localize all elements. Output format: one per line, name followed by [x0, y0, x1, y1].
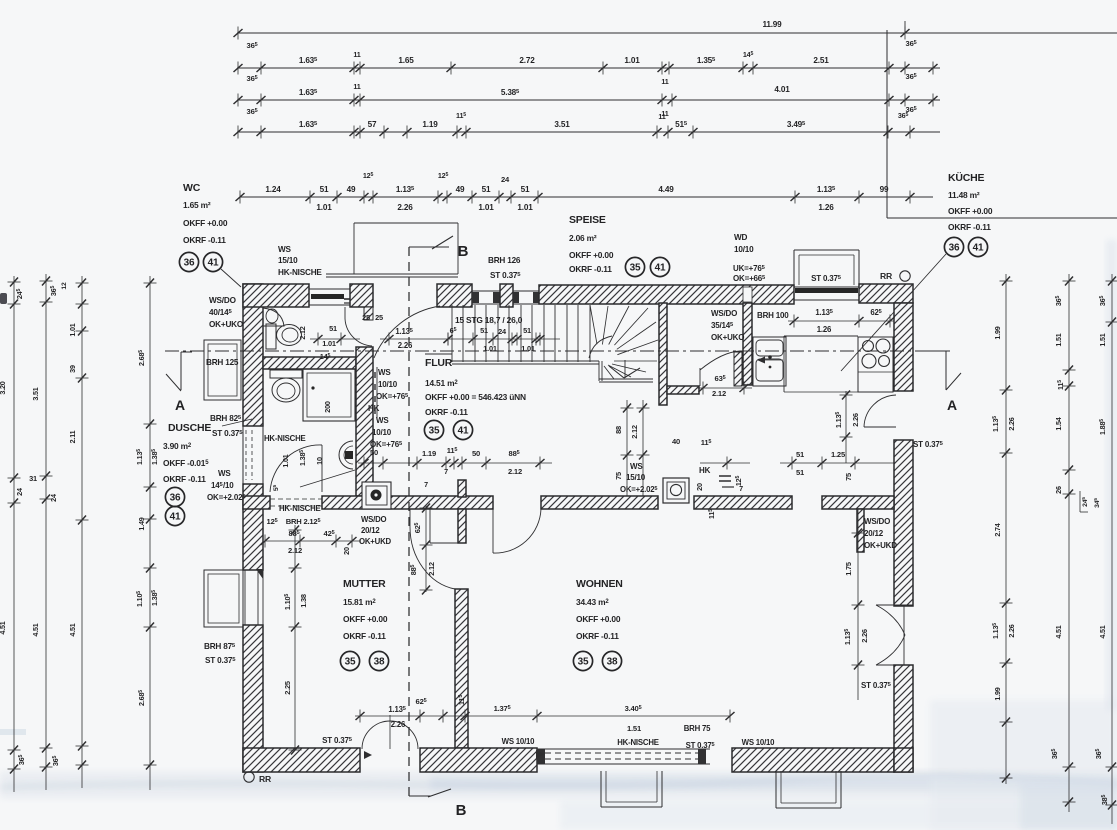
bottom dim line — [355, 715, 730, 717]
svg-text:41: 41 — [655, 263, 666, 274]
svg-text:24: 24 — [501, 175, 510, 184]
svg-text:4.51: 4.51 — [1054, 625, 1063, 638]
svg-text:75: 75 — [844, 473, 853, 481]
heater niche FLUR box — [663, 478, 689, 503]
WOHNEN circled 38 — [602, 651, 621, 670]
niche WC dashes — [344, 298, 352, 300]
svg-text:10/10: 10/10 — [378, 380, 398, 389]
wall right mid — [894, 440, 913, 606]
right small bracket — [1079, 491, 1081, 512]
svg-text:41: 41 — [973, 243, 984, 254]
svg-text:BRH 125: BRH 125 — [206, 358, 239, 367]
svg-text:24: 24 — [498, 327, 507, 336]
wall left niche HK — [242, 426, 244, 484]
svg-text:4.51: 4.51 — [68, 623, 77, 636]
wall closet stub right — [857, 509, 864, 552]
svg-text:4.49: 4.49 — [658, 185, 674, 194]
svg-text:OKRF -0.11: OKRF -0.11 — [425, 407, 468, 417]
svg-text:50: 50 — [370, 448, 378, 457]
svg-text:99: 99 — [880, 185, 889, 194]
svg-text:BRH 75: BRH 75 — [684, 724, 711, 733]
door MUTTER arc — [409, 509, 411, 527]
door KUECHE arc — [699, 368, 701, 386]
svg-text:ST 0.375: ST 0.375 — [861, 681, 892, 690]
svg-text:57: 57 — [368, 120, 377, 129]
bath basin — [339, 441, 353, 469]
closet MUTTER line — [430, 542, 458, 544]
svg-text:WS/DO: WS/DO — [209, 296, 237, 305]
svg-text:1.01: 1.01 — [281, 454, 290, 467]
svg-text:36: 36 — [170, 493, 181, 504]
wall bath south / MUTTER north west — [243, 496, 270, 509]
svg-text:51: 51 — [523, 326, 531, 335]
svg-text:WOHNEN: WOHNEN — [576, 578, 623, 590]
svg-text:A: A — [947, 397, 957, 413]
svg-text:RR: RR — [259, 774, 272, 784]
niche WD slot — [743, 287, 752, 302]
dim chain row3 line — [237, 99, 940, 101]
svg-text:41: 41 — [170, 512, 181, 523]
stair treads — [451, 305, 453, 362]
scan shading bottom strip — [0, 772, 1117, 798]
svg-text:11: 11 — [353, 82, 360, 91]
svg-text:15 STG 18,7 / 26,0: 15 STG 18,7 / 26,0 — [455, 315, 523, 325]
svg-text:15/10: 15/10 — [278, 256, 298, 265]
scan shading lower right wash — [930, 700, 1117, 830]
scan shading bottom area — [560, 800, 1117, 830]
svg-text:51: 51 — [480, 326, 488, 335]
site boundary corner top right — [886, 30, 888, 218]
door FLUR-WOHNEN opening — [492, 509, 494, 553]
svg-text:7: 7 — [424, 480, 428, 489]
wall MUTTER partition lower — [455, 589, 468, 748]
svg-text:49: 49 — [347, 185, 356, 194]
corridor vert dim — [626, 400, 628, 496]
wall corridor south mid — [541, 496, 658, 509]
wall MUTTER closet pier — [458, 480, 466, 497]
svg-text:41: 41 — [208, 258, 219, 269]
svg-text:OK=+2.025: OK=+2.025 — [620, 485, 657, 494]
svg-text:2.12: 2.12 — [630, 425, 639, 439]
MUTTER circled 38 — [369, 651, 388, 670]
wall pier FLUR windows — [500, 284, 513, 307]
niche FLUR west front — [372, 367, 374, 420]
door FLUR entrance arc — [374, 306, 440, 358]
svg-text:35: 35 — [345, 657, 356, 668]
left chain 3 — [81, 276, 83, 788]
mutter vert dim — [294, 525, 296, 750]
svg-text:ST 0.375: ST 0.375 — [811, 274, 842, 283]
wall MUTTER partition upper — [458, 509, 466, 543]
svg-text:36: 36 — [184, 258, 195, 269]
svg-text:MUTTER: MUTTER — [343, 578, 386, 590]
mutter top dim — [265, 540, 361, 542]
svg-text:10/10: 10/10 — [372, 428, 392, 437]
svg-text:49: 49 — [456, 185, 465, 194]
svg-text:1.51: 1.51 — [627, 724, 642, 733]
svg-text:11: 11 — [353, 50, 360, 59]
wall stair east — [659, 303, 667, 405]
svg-text:3.51: 3.51 — [31, 387, 40, 400]
svg-text:HK-NISCHE: HK-NISCHE — [279, 504, 321, 513]
svg-text:51: 51 — [482, 185, 491, 194]
kueche door vert dim — [845, 391, 847, 463]
wall north SPEISE-WD — [539, 285, 794, 304]
svg-text:4.51: 4.51 — [0, 621, 7, 634]
svg-text:2.12: 2.12 — [712, 389, 726, 398]
duct box flur west — [362, 482, 391, 509]
svg-text:1.99: 1.99 — [993, 326, 1002, 339]
svg-text:26: 26 — [1054, 486, 1063, 494]
svg-text:24: 24 — [15, 488, 24, 496]
wall right lower — [894, 665, 913, 772]
kueche sink — [753, 337, 786, 386]
svg-text:2.26: 2.26 — [398, 341, 413, 350]
svg-text:OKFF -0.015: OKFF -0.015 — [163, 458, 209, 468]
dim chain row2 line — [237, 67, 940, 69]
svg-text:31: 31 — [29, 474, 37, 483]
window sill box south 1 — [600, 771, 602, 807]
wall left below niche — [243, 484, 263, 570]
mutter door vert dim — [425, 505, 427, 592]
svg-text:1.75: 1.75 — [844, 562, 853, 576]
svg-text:OKFF +0.00: OKFF +0.00 — [576, 614, 621, 624]
SPEISE circled 35 — [625, 257, 644, 276]
svg-text:OK+UKD: OK+UKD — [864, 541, 897, 550]
left chain 1 — [13, 276, 15, 792]
wall FLUR north block — [437, 284, 472, 307]
svg-text:2.12: 2.12 — [298, 326, 307, 339]
svg-text:WD: WD — [734, 233, 748, 242]
svg-text:HK: HK — [699, 466, 711, 475]
svg-text:BRH 126: BRH 126 — [488, 256, 521, 265]
svg-text:88: 88 — [614, 426, 623, 434]
scan shading right edge — [1106, 240, 1117, 710]
svg-text:4.51: 4.51 — [1098, 625, 1107, 638]
window KUECHE opening — [794, 286, 859, 288]
svg-text:OKRF -0.11: OKRF -0.11 — [183, 235, 226, 245]
svg-text:1.38: 1.38 — [299, 594, 308, 608]
dim chain 11.99 line — [237, 32, 1117, 34]
svg-text:34.43 m2: 34.43 m2 — [576, 597, 609, 607]
right chain 2 — [1068, 274, 1070, 812]
stair dim line — [444, 338, 560, 340]
door bath opening dashes — [270, 498, 322, 500]
FLUR circled 41 — [453, 420, 472, 439]
door bath arc — [270, 445, 322, 492]
svg-text:/10: /10 — [223, 481, 234, 490]
wall bath east / FLUR west — [356, 347, 373, 496]
wall bottom MUTTER — [243, 748, 360, 772]
wall KUECHE door jamb — [734, 352, 742, 386]
svg-text:ST 0.375: ST 0.375 — [913, 440, 944, 449]
stair walk line arc — [589, 336, 612, 358]
svg-text:2.06 m²: 2.06 m² — [569, 233, 597, 243]
svg-text:OK+UKO: OK+UKO — [711, 333, 744, 342]
KUECHE leader line — [841, 254, 946, 371]
svg-text:BRH 2.125: BRH 2.125 — [286, 517, 321, 526]
svg-text:OKFF +0.00: OKFF +0.00 — [343, 614, 388, 624]
svg-text:2.74: 2.74 — [993, 523, 1002, 536]
svg-text:50: 50 — [472, 449, 480, 458]
wall north-east corner — [859, 284, 913, 303]
wall pier WC step — [364, 307, 373, 320]
svg-text:20/12: 20/12 — [864, 529, 884, 538]
svg-text:7: 7 — [739, 484, 743, 493]
svg-text:2.12: 2.12 — [427, 562, 436, 576]
dim chain row4 line — [237, 131, 940, 133]
svg-text:HK: HK — [368, 404, 380, 413]
svg-text:A: A — [175, 397, 185, 413]
section line A-A — [165, 350, 950, 352]
svg-text:11: 11 — [661, 77, 668, 86]
scan corner wash bottom right — [1020, 780, 1117, 830]
svg-text:OKRF -0.11: OKRF -0.11 — [569, 264, 612, 274]
bath toilet — [270, 370, 302, 378]
svg-text:35: 35 — [429, 426, 440, 437]
svg-text:75: 75 — [614, 472, 623, 480]
stair walk line arrow — [624, 360, 626, 378]
window BRH125 outer box — [204, 340, 241, 400]
svg-text:B: B — [458, 243, 469, 260]
vent triangle MUTTER window — [256, 569, 263, 579]
svg-text:4.01: 4.01 — [774, 85, 790, 94]
DUSCHE circled 41 — [165, 506, 184, 525]
svg-text:1.24: 1.24 — [265, 185, 281, 194]
svg-text:35: 35 — [578, 657, 589, 668]
niche WC north — [309, 288, 350, 290]
svg-text:1.25: 1.25 — [831, 450, 846, 459]
svg-text:1.26: 1.26 — [818, 203, 834, 212]
svg-text:1.01: 1.01 — [483, 344, 497, 353]
svg-text:2.72: 2.72 — [519, 56, 535, 65]
window HK-NISCHE south — [537, 748, 710, 750]
svg-text:10: 10 — [315, 457, 324, 465]
svg-text:40: 40 — [672, 437, 680, 446]
svg-text:39: 39 — [68, 365, 77, 373]
svg-text:1.54: 1.54 — [1054, 417, 1063, 430]
wall right KUECHE — [894, 303, 913, 391]
svg-text:51: 51 — [521, 185, 530, 194]
svg-text:1.01: 1.01 — [316, 203, 332, 212]
svg-text:20: 20 — [342, 547, 351, 555]
svg-text:1.01: 1.01 — [624, 56, 640, 65]
svg-text:20/12: 20/12 — [361, 526, 380, 535]
WC toilet — [266, 324, 276, 349]
bath shower — [303, 369, 355, 421]
svg-text:OKRF -0.11: OKRF -0.11 — [948, 222, 991, 232]
svg-text:1.51: 1.51 — [1054, 333, 1063, 346]
wall SPEISE south — [667, 386, 699, 394]
section mark B bottom — [409, 795, 431, 797]
svg-text:11.99: 11.99 — [762, 20, 782, 29]
svg-text:OKRF -0.11: OKRF -0.11 — [343, 631, 386, 641]
wall corridor south end — [822, 496, 894, 509]
svg-text:38: 38 — [607, 657, 618, 668]
label RR bottom — [244, 772, 254, 782]
right chain 3 — [1111, 274, 1113, 824]
svg-text:OKFF +0.00: OKFF +0.00 — [569, 250, 614, 260]
svg-text:2.51: 2.51 — [813, 56, 829, 65]
window MUTTER outer box — [204, 570, 243, 627]
stair stringer — [452, 360, 599, 362]
stair winder stringer — [598, 361, 600, 381]
svg-text:UK=+765: UK=+765 — [733, 264, 766, 273]
svg-text:11.48 m²: 11.48 m² — [948, 190, 980, 200]
kueche arrow left — [758, 359, 783, 361]
svg-text:24: 24 — [49, 494, 58, 502]
svg-text:WS: WS — [376, 416, 389, 425]
svg-text:2.26: 2.26 — [860, 629, 869, 643]
svg-text:OKFF +0.00 = 546.423 üNN: OKFF +0.00 = 546.423 üNN — [425, 392, 526, 402]
svg-text:1.19: 1.19 — [422, 120, 438, 129]
door MUTTER south double — [362, 721, 390, 749]
svg-text:35: 35 — [630, 263, 641, 274]
svg-text:1.01: 1.01 — [478, 203, 494, 212]
svg-text:3.90 m2: 3.90 m2 — [163, 441, 192, 451]
WC circled 36 — [179, 252, 198, 271]
WC leader line — [221, 269, 241, 287]
svg-text:HK-NISCHE: HK-NISCHE — [278, 268, 322, 277]
svg-text:WS: WS — [218, 469, 231, 478]
svg-text:1.26: 1.26 — [817, 325, 832, 334]
wc dim ticks — [310, 338, 360, 340]
svg-text:B: B — [456, 802, 467, 819]
svg-text:ST 0.375: ST 0.375 — [322, 736, 353, 745]
door sill triangle WOHNEN — [536, 750, 544, 759]
section mark A right — [920, 350, 946, 352]
svg-text:WS 10/10: WS 10/10 — [742, 738, 776, 747]
svg-text:BRH 875: BRH 875 — [204, 642, 236, 651]
svg-text:38: 38 — [374, 657, 385, 668]
window KUECHE upstand box — [794, 249, 859, 251]
SPEISE circled 41 — [650, 257, 669, 276]
svg-text:51: 51 — [329, 324, 337, 333]
wall bottom WOHNEN — [732, 748, 894, 772]
svg-text:36: 36 — [949, 243, 960, 254]
svg-text:KÜCHE: KÜCHE — [948, 171, 985, 184]
svg-text:2.25: 2.25 — [283, 681, 292, 695]
svg-text:1.01: 1.01 — [68, 323, 77, 336]
svg-text:200: 200 — [323, 401, 332, 413]
MUTTER circled 35 — [340, 651, 359, 670]
svg-text:FLUR: FLUR — [425, 357, 453, 369]
svg-text:11: 11 — [658, 112, 665, 121]
svg-text:51: 51 — [796, 468, 805, 477]
svg-text:51: 51 — [320, 185, 329, 194]
svg-text:1.65: 1.65 — [398, 56, 414, 65]
svg-text:ST 0.375: ST 0.375 — [212, 429, 243, 438]
svg-text:OK+UKD: OK+UKD — [359, 537, 392, 546]
window FLUR north 1 — [472, 290, 500, 292]
wohnen right vert dim — [857, 509, 859, 700]
svg-text:ST 0.375: ST 0.375 — [686, 741, 715, 750]
DUSCHE circled 36 — [165, 487, 184, 506]
svg-text:WS/DO: WS/DO — [711, 309, 737, 318]
door WC arc — [345, 316, 372, 346]
svg-text:RR: RR — [880, 271, 893, 281]
svg-text:1.99: 1.99 — [993, 687, 1002, 700]
svg-text:WS: WS — [378, 368, 391, 377]
svg-text:OK=+2.025: OK=+2.025 — [207, 493, 246, 502]
left chain 4 — [149, 276, 151, 790]
svg-text:1.51: 1.51 — [1098, 333, 1107, 346]
WC corner sink — [263, 308, 284, 326]
section mark A left — [181, 351, 192, 353]
svg-text:25: 25 — [362, 313, 370, 322]
svg-text:HK-NISCHE: HK-NISCHE — [264, 434, 306, 443]
svg-text:OKRF -0.11: OKRF -0.11 — [576, 631, 619, 641]
kueche counter — [784, 335, 858, 337]
WOHNEN circled 35 — [573, 651, 592, 670]
KUECHE circled 36 — [944, 237, 963, 256]
svg-text:1.01: 1.01 — [322, 339, 336, 348]
svg-text:25: 25 — [375, 313, 383, 322]
wall corridor south right — [694, 496, 792, 509]
section line B-B — [408, 247, 410, 796]
right chain 1 — [1005, 274, 1007, 784]
svg-text:WS 10/10: WS 10/10 — [502, 737, 536, 746]
KUECHE circled 41 — [968, 237, 987, 256]
svg-text:4.51: 4.51 — [31, 623, 40, 636]
svg-text:15.81 m2: 15.81 m2 — [343, 597, 376, 607]
svg-text:ST 0.375: ST 0.375 — [205, 656, 236, 665]
svg-text:1.01: 1.01 — [521, 344, 535, 353]
scan smudge left edge — [0, 293, 7, 304]
svg-text:ST 0.375: ST 0.375 — [490, 271, 521, 280]
svg-text:WS/DO: WS/DO — [864, 517, 890, 526]
svg-text:WS: WS — [630, 462, 643, 471]
scan shading bottom strip 2 — [430, 776, 1117, 790]
wall pier WC north right — [350, 284, 373, 307]
wall bottom right corner — [894, 748, 913, 772]
svg-text:10/10: 10/10 — [734, 245, 754, 254]
svg-text:51: 51 — [796, 450, 805, 459]
wall left MUTTER lower — [243, 625, 263, 772]
WC circled 41 — [203, 252, 222, 271]
svg-text:14.51 m2: 14.51 m2 — [425, 378, 458, 388]
svg-text:7: 7 — [444, 467, 448, 476]
corridor right dim — [780, 462, 894, 464]
porch outline — [354, 222, 458, 224]
svg-text:BRH 100: BRH 100 — [757, 311, 789, 320]
svg-text:2.26: 2.26 — [1007, 624, 1016, 637]
svg-text:1.65 m²: 1.65 m² — [183, 200, 211, 210]
stair winder fan — [590, 305, 597, 344]
stair winder lower treads — [604, 366, 614, 379]
door sill triangle MUTTER — [364, 751, 372, 759]
svg-text:HK-NISCHE: HK-NISCHE — [617, 738, 659, 747]
svg-text:2.12: 2.12 — [508, 467, 522, 476]
wall WC-bath divider — [263, 357, 356, 369]
dim chain row5 line — [240, 196, 933, 198]
svg-text:BRH 825: BRH 825 — [210, 414, 242, 423]
svg-text:2.26: 2.26 — [1007, 417, 1016, 430]
svg-text:OK+UKO: OK+UKO — [209, 320, 244, 329]
window sill box south 2 — [775, 771, 777, 808]
flur bottom dim line — [358, 462, 552, 464]
scan streak left — [0, 729, 26, 735]
svg-text:OKFF +0.00: OKFF +0.00 — [183, 218, 228, 228]
svg-text:OKRF -0.11: OKRF -0.11 — [163, 474, 206, 484]
scan fold line bottom — [0, 775, 1117, 787]
window FLUR north 2 — [513, 290, 539, 292]
wall bottom corridor — [420, 748, 537, 772]
svg-text:DUSCHE: DUSCHE — [168, 422, 211, 434]
svg-text:20: 20 — [695, 483, 704, 491]
svg-text:1.01: 1.01 — [517, 203, 533, 212]
svg-text:OK=+665: OK=+665 — [733, 274, 766, 283]
